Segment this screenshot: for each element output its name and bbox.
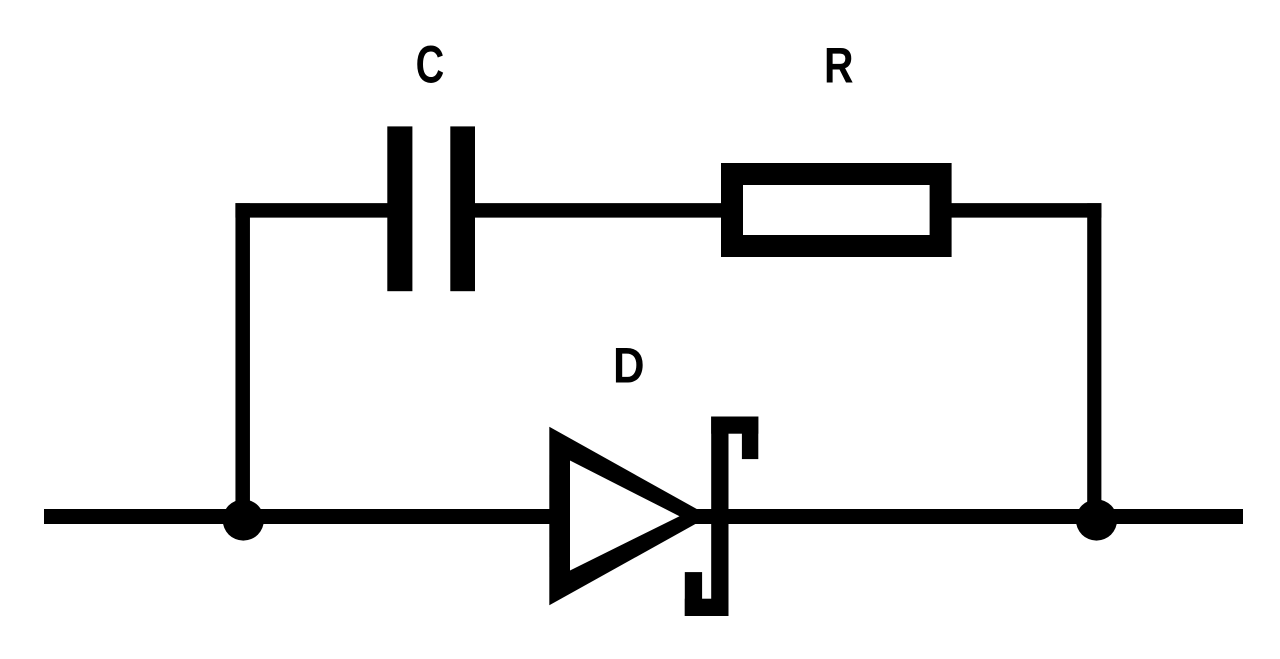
diode D cathode bottom-left stub (685, 572, 702, 616)
svg-text:R: R (824, 38, 854, 94)
resistor R body (732, 174, 941, 246)
diode D cathode bar (711, 417, 728, 617)
diode D anode triangle (549, 427, 709, 606)
wire: right vertical branch (1087, 203, 1101, 520)
svg-text:C: C (416, 35, 445, 94)
wire: main horizontal net (44, 509, 1243, 524)
capacitor C left plate (387, 126, 412, 291)
node: left junction dot (223, 499, 264, 540)
diode D cathode top arm (711, 417, 758, 434)
diode D cathode top-right stub (742, 417, 758, 460)
diode D cathode bottom arm (685, 599, 729, 616)
node: right junction dot (1076, 499, 1117, 540)
wire: resistor to right corner segment (948, 203, 1101, 218)
wire: top-left horizontal segment to capacitor (235, 203, 390, 218)
wire: capacitor to resistor segment (473, 203, 725, 218)
capacitor C right plate (450, 126, 475, 291)
svg-text:D: D (613, 338, 645, 394)
wire: left vertical branch (235, 203, 250, 520)
